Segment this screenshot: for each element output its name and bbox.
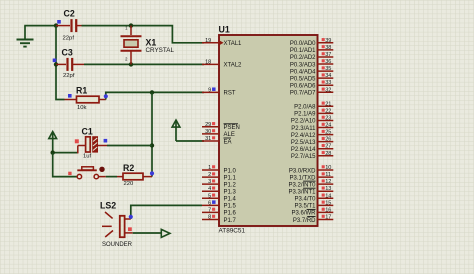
XTAL1 clock pin arrowhead (219, 40, 224, 45)
svg-text:P3.2/INT0: P3.2/INT0 (288, 182, 316, 188)
wire C2 to XTAL1 pin (82, 26, 205, 43)
svg-text:P3.5/T1: P3.5/T1 (294, 204, 316, 210)
resistor R2 (117, 163, 152, 187)
pin 19 XTAL1 (202, 38, 242, 47)
svg-text:P0.1/AD1: P0.1/AD1 (290, 48, 316, 54)
svg-text:P3.7/RD: P3.7/RD (293, 218, 316, 224)
pin 6 P1.5 (202, 200, 237, 209)
pin 9 RST (202, 87, 236, 96)
svg-text:10: 10 (325, 165, 331, 171)
node A junction C2/ground (54, 20, 61, 28)
svg-text:26: 26 (325, 137, 331, 143)
svg-text:SOUNDER: SOUNDER (102, 242, 133, 248)
svg-text:19: 19 (205, 38, 211, 44)
svg-text:R1: R1 (76, 86, 87, 96)
wire VCC down to button row (53, 153, 77, 177)
wire node A down to C3 and R1 (55, 26, 57, 65)
node RST / reset net (150, 90, 154, 94)
svg-text:14: 14 (325, 193, 331, 199)
ground (17, 26, 34, 46)
wire sounder to P1.5 (129, 205, 202, 219)
pin 1 P1.0 (202, 165, 237, 174)
pin 36 P0.3/AD3 (290, 59, 333, 68)
svg-text:35: 35 (325, 66, 331, 72)
capacitor C2 (56, 9, 82, 42)
svg-text:22pf: 22pf (63, 36, 75, 42)
svg-text:C3: C3 (62, 48, 73, 58)
pin 25 P2.4/A12 (291, 130, 333, 139)
wire EA arrow to EA pin (176, 140, 204, 142)
svg-text:8: 8 (208, 214, 211, 220)
svg-text:33: 33 (325, 80, 331, 86)
svg-text:P0.7/AD7: P0.7/AD7 (290, 91, 316, 97)
svg-text:P0.4/AD4: P0.4/AD4 (290, 69, 316, 75)
svg-text:17: 17 (325, 214, 331, 220)
pin 39 P0.0/AD0 (290, 38, 333, 47)
node crystal top (129, 23, 133, 27)
pin 18 XTAL2 (202, 59, 242, 68)
svg-text:32: 32 (325, 87, 331, 93)
svg-text:P2.5/A13: P2.5/A13 (291, 140, 316, 146)
svg-text:P0.2/AD2: P0.2/AD2 (290, 55, 316, 61)
capacitor C3 (53, 48, 84, 80)
node C1 branch (150, 143, 154, 147)
crystal X1 (121, 26, 175, 65)
svg-text:C2: C2 (64, 9, 75, 19)
svg-text:P1.7: P1.7 (224, 218, 237, 224)
svg-text:25: 25 (325, 130, 331, 136)
svg-text:P1.3: P1.3 (224, 190, 237, 196)
wire button to R2 (106, 176, 117, 178)
capacitor C1 (1uf electrolytic) (75, 127, 107, 160)
svg-text:10k: 10k (77, 105, 87, 111)
svg-text:12: 12 (325, 179, 331, 185)
pin 28 P2.7/A15 (291, 151, 333, 160)
pin 13 P3.3/INT1 (288, 186, 333, 195)
pin 4 P1.3 (202, 186, 237, 195)
pin 15 P3.5/T1 (294, 200, 333, 209)
pin 32 P0.7/AD7 (290, 87, 333, 96)
pin 14 P3.4/T0 (294, 193, 333, 202)
wire ground to node A (24, 25, 56, 27)
svg-text:15: 15 (325, 200, 331, 206)
svg-text:P2.2/A10: P2.2/A10 (291, 119, 316, 125)
pin 22 P2.1/A9 (294, 108, 333, 117)
svg-text:9: 9 (208, 87, 211, 93)
svg-text:28: 28 (325, 151, 331, 157)
svg-text:18: 18 (205, 59, 211, 65)
pin 11 P3.1/TXD (289, 172, 333, 181)
svg-text:31: 31 (205, 136, 211, 142)
svg-text:P1.1: P1.1 (224, 175, 237, 181)
pin 24 P2.3/A11 (291, 123, 333, 132)
svg-text:21: 21 (325, 101, 331, 107)
wire C3 node down to R1 row (56, 64, 65, 99)
svg-text:38: 38 (325, 45, 331, 51)
pin 30 ALE (202, 129, 235, 138)
IC U1 AT89C51 body (219, 25, 318, 235)
wire sounder to output terminal (133, 232, 162, 234)
pin 21 P2.0/A8 (294, 101, 333, 110)
pin 35 P0.4/AD4 (290, 66, 333, 75)
svg-text:P3.6/WR: P3.6/WR (291, 211, 316, 217)
svg-text:2: 2 (208, 172, 211, 178)
svg-text:P0.3/AD3: P0.3/AD3 (290, 62, 316, 68)
svg-text:27: 27 (325, 144, 331, 150)
pin 38 P0.1/AD1 (290, 45, 333, 54)
svg-text:XTAL1: XTAL1 (224, 41, 243, 47)
svg-text:P3.1/TXD: P3.1/TXD (289, 175, 316, 181)
svg-text:ALE: ALE (224, 132, 235, 138)
svg-text:37: 37 (325, 52, 331, 58)
svg-text:P2.4/A12: P2.4/A12 (291, 133, 316, 139)
svg-text:EA: EA (224, 139, 232, 145)
wire reset net down to R2 (150, 92, 154, 176)
svg-text:3: 3 (208, 179, 211, 185)
svg-text:5: 5 (208, 193, 211, 199)
resistor R1 (65, 86, 106, 112)
svg-text:U1: U1 (219, 25, 230, 35)
svg-text:C1: C1 (82, 127, 93, 137)
pin 23 P2.2/A10 (291, 115, 333, 124)
push button switch (68, 167, 106, 179)
svg-text:22pf: 22pf (63, 73, 75, 79)
power terminal VCC (left arrow) (49, 132, 57, 153)
svg-text:34: 34 (325, 73, 331, 79)
pin 16 P3.6/WR (291, 207, 333, 216)
svg-text:P2.1/A9: P2.1/A9 (294, 112, 316, 118)
svg-text:220: 220 (124, 181, 135, 187)
svg-text:P1.5: P1.5 (224, 204, 237, 210)
svg-text:CRYSTAL: CRYSTAL (146, 47, 175, 54)
pin 12 P3.2/INT0 (288, 179, 333, 188)
svg-text:P2.0/A8: P2.0/A8 (294, 105, 316, 111)
pin 7 P1.6 (202, 207, 237, 216)
pin 27 P2.6/A14 (291, 144, 333, 153)
svg-text:13: 13 (325, 186, 331, 192)
output terminal arrow (161, 229, 170, 237)
pin 33 P0.6/AD6 (290, 80, 333, 89)
node crystal bottom (129, 62, 133, 66)
svg-text:AT89C51: AT89C51 (219, 227, 246, 234)
svg-text:36: 36 (325, 59, 331, 65)
svg-text:1uf: 1uf (83, 154, 92, 160)
svg-text:P1.2: P1.2 (224, 182, 237, 188)
svg-text:RST: RST (224, 91, 236, 97)
svg-text:30: 30 (205, 129, 211, 135)
pin 34 P0.5/AD5 (290, 73, 333, 82)
pin 3 P1.2 (202, 179, 237, 188)
svg-text:16: 16 (325, 207, 331, 213)
pin 17 P3.7/RD (293, 214, 333, 223)
svg-text:P3.3/INT1: P3.3/INT1 (288, 190, 316, 196)
svg-text:4: 4 (208, 186, 211, 192)
svg-text:29: 29 (205, 122, 211, 128)
svg-text:22: 22 (325, 108, 331, 114)
wire VCC to C1 (53, 152, 78, 154)
svg-text:PSEN: PSEN (224, 125, 240, 131)
svg-text:6: 6 (208, 200, 211, 206)
svg-text:P2.3/A11: P2.3/A11 (291, 126, 316, 132)
svg-text:P3.0/RXD: P3.0/RXD (289, 168, 316, 174)
svg-text:P0.0/AD0: P0.0/AD0 (290, 41, 316, 47)
svg-text:11: 11 (325, 172, 331, 178)
svg-text:P3.4/T0: P3.4/T0 (294, 197, 316, 203)
power terminal (EA arrow) (172, 120, 180, 141)
svg-text:P1.6: P1.6 (224, 211, 237, 217)
pin 26 P2.5/A13 (291, 137, 333, 146)
svg-text:P0.6/AD6: P0.6/AD6 (290, 84, 316, 90)
svg-text:P2.6/A14: P2.6/A14 (291, 147, 316, 153)
pin 5 P1.4 (202, 193, 237, 202)
svg-text:P1.0: P1.0 (224, 168, 237, 174)
pin 29 PSEN (202, 122, 240, 131)
svg-text:39: 39 (325, 38, 331, 44)
pin 2 P1.1 (202, 172, 237, 181)
wire R1 to RST pin (104, 92, 204, 99)
svg-text:P1.4: P1.4 (224, 197, 237, 203)
svg-text:XTAL2: XTAL2 (224, 63, 243, 69)
svg-text:1: 1 (208, 165, 211, 171)
svg-text:P2.7/A15: P2.7/A15 (291, 154, 316, 160)
pin 8 P1.7 (202, 214, 237, 223)
svg-text:23: 23 (325, 115, 331, 121)
pin 10 P3.0/RXD (289, 165, 333, 174)
wire C3 to XTAL2 pin (84, 63, 204, 65)
svg-text:LS2: LS2 (100, 200, 116, 210)
svg-text:24: 24 (325, 123, 331, 129)
sounder LS2 (100, 200, 133, 248)
pin 37 P0.2/AD2 (290, 52, 333, 61)
svg-text:P0.5/AD5: P0.5/AD5 (290, 76, 316, 82)
node VCC junction (51, 150, 55, 154)
wire C1 to reset net (107, 145, 152, 147)
svg-text:R2: R2 (123, 163, 134, 173)
svg-text:7: 7 (208, 207, 211, 213)
pin 31 EA (202, 136, 232, 145)
